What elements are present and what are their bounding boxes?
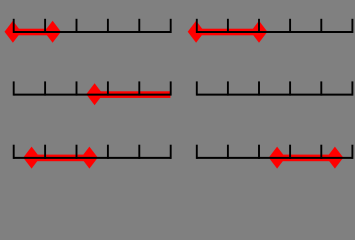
tick 1 of number line 3 (middle left) <box>13 81 15 95</box>
tick 5 of number line 2 (top right) <box>320 19 322 33</box>
axis of number line 6 (bottom right) <box>197 157 353 159</box>
diamond endpoint A2 <box>44 21 61 43</box>
tick 5 of number line 6 (bottom right) <box>320 145 322 159</box>
axis of number line 3 (middle left) <box>14 94 171 96</box>
diamond endpoint F1 <box>269 147 286 169</box>
tick 3 of number line 2 (top right) <box>258 19 260 33</box>
axis of number line 2 (top right) <box>197 31 353 33</box>
tick 3 of number line 6 (bottom right) <box>258 145 260 159</box>
axis of number line 1 (top left) <box>14 31 171 33</box>
tick 1 of number line 5 (bottom left) <box>13 145 15 159</box>
red interval segment 2 (line 2 top right) <box>197 29 259 36</box>
diamond endpoint F2 <box>327 147 344 169</box>
tick 2 of number line 5 (bottom left) <box>44 145 46 159</box>
diamond endpoint E2 <box>81 147 98 169</box>
tick 2 of number line 6 (bottom right) <box>227 145 229 159</box>
tick 5 of number line 5 (bottom left) <box>138 145 140 159</box>
red interval segment 4 (line 5 bottom left) <box>32 155 90 162</box>
tick 4 of number line 2 (top right) <box>289 19 291 33</box>
tick 6 of number line 3 (middle left) <box>170 81 172 95</box>
tick 5 of number line 1 (top left) <box>138 19 140 33</box>
tick 3 of number line 5 (bottom left) <box>76 145 78 159</box>
diamond endpoint B1 <box>188 21 205 43</box>
red interval segment 3 (line 3 middle left ray) <box>95 91 171 98</box>
tick 2 of number line 4 (middle right) <box>227 81 229 95</box>
tick 6 of number line 2 (top right) <box>351 19 353 33</box>
tick 3 of number line 1 (top left) <box>76 19 78 33</box>
tick 2 of number line 3 (middle left) <box>44 81 46 95</box>
tick 6 of number line 5 (bottom left) <box>170 145 172 159</box>
tick 2 of number line 1 (top left) <box>44 19 46 33</box>
diamond endpoint B2 <box>251 21 268 43</box>
diamond endpoint A1 <box>5 21 22 43</box>
tick 1 of number line 2 (top right) <box>196 19 198 33</box>
axis of number line 4 (middle right) <box>197 94 353 96</box>
tick 2 of number line 2 (top right) <box>227 19 229 33</box>
tick 6 of number line 4 (middle right) <box>351 81 353 95</box>
diamond endpoint E1 <box>23 147 40 169</box>
red interval segment 1 (line 1 top left) <box>14 29 53 36</box>
tick 5 of number line 3 (middle left) <box>138 81 140 95</box>
tick 3 of number line 3 (middle left) <box>76 81 78 95</box>
axis of number line 5 (bottom left) <box>14 157 171 159</box>
tick 4 of number line 1 (top left) <box>107 19 109 33</box>
tick 5 of number line 4 (middle right) <box>320 81 322 95</box>
tick 3 of number line 4 (middle right) <box>258 81 260 95</box>
tick 4 of number line 3 (middle left) <box>107 81 109 95</box>
tick 4 of number line 4 (middle right) <box>289 81 291 95</box>
tick 1 of number line 4 (middle right) <box>196 81 198 95</box>
tick 6 of number line 1 (top left) <box>170 19 172 33</box>
gray background <box>0 0 355 171</box>
red interval segment 5 (line 6 bottom right) <box>277 155 335 162</box>
tick 4 of number line 5 (bottom left) <box>107 145 109 159</box>
tick 1 of number line 1 (top left) <box>13 19 15 33</box>
tick 6 of number line 6 (bottom right) <box>351 145 353 159</box>
tick 1 of number line 6 (bottom right) <box>196 145 198 159</box>
tick 4 of number line 6 (bottom right) <box>289 145 291 159</box>
diamond endpoint C1 <box>86 83 103 105</box>
